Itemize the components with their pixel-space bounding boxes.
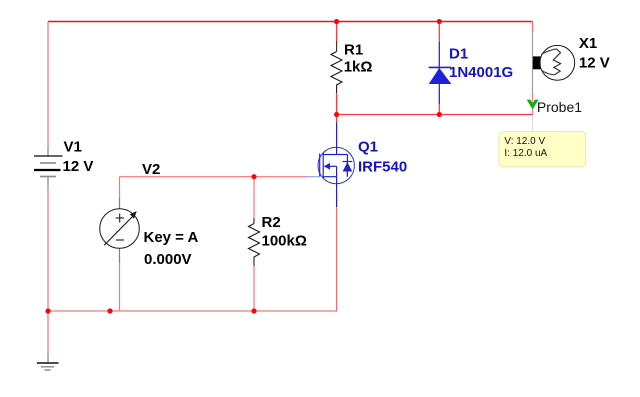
svg-text:R1: R1 [344, 41, 363, 58]
svg-text:V2: V2 [142, 161, 160, 178]
svg-text:1N4001G: 1N4001G [449, 64, 513, 81]
svg-text:V: 12.0 V: V: 12.0 V [504, 136, 545, 147]
svg-text:X1: X1 [579, 35, 597, 52]
svg-text:Q1: Q1 [358, 139, 378, 156]
svg-text:1kΩ: 1kΩ [344, 59, 373, 76]
svg-text:0.000V: 0.000V [144, 251, 192, 268]
svg-text:D1: D1 [449, 45, 468, 62]
svg-text:12 V: 12 V [63, 158, 94, 175]
svg-text:R2: R2 [262, 214, 281, 231]
svg-text:100kΩ: 100kΩ [262, 233, 307, 250]
svg-text:12 V: 12 V [579, 54, 610, 71]
svg-text:V1: V1 [64, 139, 82, 156]
svg-text:Probe1: Probe1 [537, 99, 582, 115]
svg-text:Key = A: Key = A [144, 229, 199, 246]
svg-text:I: 12.0 uA: I: 12.0 uA [504, 148, 547, 159]
svg-text:IRF540: IRF540 [358, 159, 407, 176]
